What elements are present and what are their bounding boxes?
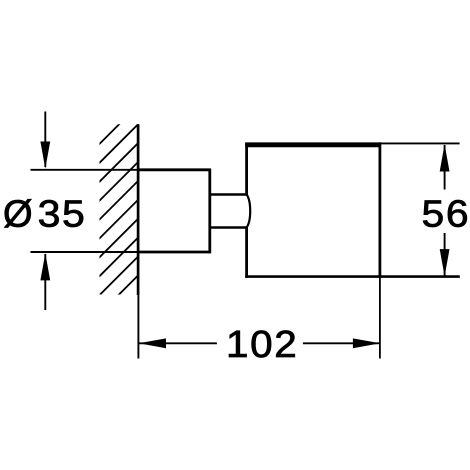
svg-text:102: 102: [226, 323, 298, 366]
svg-text:56: 56: [422, 193, 470, 235]
stem fillet arc: [247, 195, 251, 228]
56 dimension line with arrows: [440, 144, 450, 276]
extension line Ø35 bottom: [31, 251, 138, 253]
Ø35 arrow top (points down): [40, 112, 50, 169]
svg-text:35: 35: [38, 193, 87, 235]
svg-text:Ø: Ø: [3, 194, 33, 236]
Ø35 arrow bottom (points up): [40, 253, 50, 310]
neck / stem: [210, 195, 247, 228]
extension line Ø35 top: [31, 169, 138, 171]
cup body (holder, side view): [245, 142, 460, 278]
102 dimension line with arrows: [139, 338, 381, 348]
102 right extension line (cup edge extended): [379, 278, 381, 359]
56 extension line top: [381, 142, 460, 144]
mount cylinder (wall holder, side view): [137, 169, 211, 254]
wall hatching: [87, 96, 337, 346]
wall: [137, 124, 140, 358]
